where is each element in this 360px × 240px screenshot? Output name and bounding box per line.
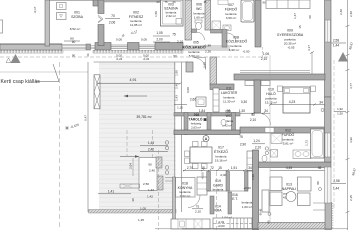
svg-text:1,92: 1,92 xyxy=(337,107,343,111)
svg-text:90: 90 xyxy=(308,15,312,19)
svg-text:-0,05: -0,05 xyxy=(287,46,294,50)
svg-text:1,91: 1,91 xyxy=(231,166,237,170)
armchairs xyxy=(298,177,312,191)
door chevron 001 xyxy=(98,15,103,23)
radiator box 2 xyxy=(57,13,67,20)
toilet xyxy=(195,20,202,23)
svg-text:017: 017 xyxy=(218,146,224,150)
svg-text:011: 011 xyxy=(226,87,232,91)
svg-text:009: 009 xyxy=(287,29,293,33)
A marker xyxy=(205,134,207,136)
top dim row xyxy=(157,0,266,5)
svg-text:3,92: 3,92 xyxy=(349,137,353,143)
svg-text:0,30: 0,30 xyxy=(241,100,247,104)
svg-text:2,90: 2,90 xyxy=(240,143,246,147)
kitchen counters xyxy=(171,219,210,229)
svg-text:24: 24 xyxy=(173,0,176,4)
window lines xyxy=(111,45,155,49)
svg-text:0,00: 0,00 xyxy=(116,38,122,42)
door arc 005 xyxy=(194,58,206,70)
svg-text:2,58: 2,58 xyxy=(333,39,339,43)
svg-text:-0,17: -0,17 xyxy=(33,6,37,13)
svg-text:KÖZLEKEDŐ: KÖZLEKEDŐ xyxy=(182,45,205,50)
vertical thin line x=270 xyxy=(269,55,271,222)
corridor window band xyxy=(183,46,230,50)
wall L x=178-188 xyxy=(186,62,193,72)
shower xyxy=(212,21,221,30)
svg-text:36: 36 xyxy=(318,166,322,170)
triangle marker left xyxy=(11,54,21,63)
dashed overhang line xyxy=(0,56,268,58)
svg-text:4,23: 4,23 xyxy=(289,100,296,104)
wardrobe top xyxy=(266,0,310,9)
wc xyxy=(262,155,267,161)
svg-text:FÜRDŐ: FÜRDŐ xyxy=(282,132,295,137)
svg-text:3,77: 3,77 xyxy=(349,83,353,89)
svg-text:002: 002 xyxy=(133,11,139,15)
toilet wc2 xyxy=(221,119,226,125)
bottom dim row xyxy=(187,166,252,170)
svg-text:0,00: 0,00 xyxy=(141,38,147,42)
svg-text:1,60 m²: 1,60 m² xyxy=(242,205,252,209)
svg-text:+0,00: +0,00 xyxy=(200,172,204,180)
svg-text:013: 013 xyxy=(286,183,292,187)
svg-text:2,10: 2,10 xyxy=(261,57,267,61)
pier 1 xyxy=(95,43,111,51)
pier 3 xyxy=(155,43,183,51)
round table xyxy=(286,192,296,202)
wc bottom wall + door xyxy=(192,29,197,33)
svg-text:WC: WC xyxy=(226,114,232,118)
triangle marker right xyxy=(338,52,348,62)
svg-text:70: 70 xyxy=(111,14,115,18)
bottom right L wall xyxy=(258,223,326,230)
svg-text:WC: WC xyxy=(196,7,202,11)
top edge line xyxy=(45,0,104,2)
svg-text:2,58: 2,58 xyxy=(333,179,339,183)
arrow xyxy=(124,95,147,97)
divider wall 001/002 xyxy=(93,0,99,6)
svg-text:2,40: 2,40 xyxy=(148,148,154,152)
vertical dashed lines bottom xyxy=(158,150,160,230)
svg-text:80: 80 xyxy=(316,181,320,185)
svg-text:2,04: 2,04 xyxy=(129,163,133,169)
svg-text:34: 34 xyxy=(319,101,323,105)
shower xyxy=(271,134,282,144)
interior left wall xyxy=(175,62,182,212)
bed xyxy=(283,87,310,113)
column white box xyxy=(139,158,157,191)
dashed property line xyxy=(59,62,61,228)
svg-text:75: 75 xyxy=(239,135,243,139)
svg-text:15: 15 xyxy=(298,25,302,29)
svg-text:1,90: 1,90 xyxy=(175,70,179,76)
furdo bottom wall xyxy=(253,162,331,168)
island outline xyxy=(176,178,196,198)
svg-text:Kerti csap kiállás: Kerti csap kiállás xyxy=(1,79,41,85)
svg-text:3,50 m²: 3,50 m² xyxy=(226,16,237,20)
svg-text:90: 90 xyxy=(148,163,152,167)
svg-text:-0,00: -0,00 xyxy=(242,50,249,54)
svg-text:E.T.: E.T. xyxy=(232,197,238,201)
svg-text:80: 80 xyxy=(70,37,74,41)
svg-text:2,06: 2,06 xyxy=(109,21,116,25)
svg-text:1,60 m²: 1,60 m² xyxy=(194,16,205,20)
svg-text:019: 019 xyxy=(215,179,221,183)
furdo bottom wall xyxy=(211,30,223,34)
circles 05 xyxy=(265,147,268,150)
svg-text:6,47: 6,47 xyxy=(84,115,88,121)
svg-text:+0,00: +0,00 xyxy=(243,186,251,190)
svg-text:11,85 m²: 11,85 m² xyxy=(130,23,142,27)
-0,470 xyxy=(70,123,80,130)
wall segment left solid xyxy=(0,44,62,50)
terrace gray area xyxy=(99,62,176,212)
svg-text:3,17: 3,17 xyxy=(307,45,311,51)
svg-text:15: 15 xyxy=(204,0,207,4)
svg-text:1,41: 1,41 xyxy=(108,190,114,194)
dims middle 1,43/2,40 xyxy=(148,141,154,152)
svg-text:1,73: 1,73 xyxy=(305,140,309,146)
svg-text:1,42: 1,42 xyxy=(147,195,153,199)
svg-text:016: 016 xyxy=(194,113,200,117)
svg-text:NAPPALI: NAPPALI xyxy=(282,187,297,191)
svg-text:1,44: 1,44 xyxy=(333,44,339,48)
terrace bottom hatched edge xyxy=(89,210,177,214)
svg-text:006: 006 xyxy=(196,3,202,7)
svg-text:015: 015 xyxy=(225,110,231,114)
svg-text:001: 001 xyxy=(74,11,80,15)
sink xyxy=(223,25,231,31)
svg-text:1,25: 1,25 xyxy=(138,218,144,222)
svg-text:1,05: 1,05 xyxy=(156,31,162,35)
halo top wall xyxy=(234,74,325,80)
window 001 left xyxy=(62,44,86,50)
svg-text:4,45: 4,45 xyxy=(286,166,292,170)
svg-text:90: 90 xyxy=(263,1,266,5)
svg-text:012: 012 xyxy=(285,129,291,133)
table xyxy=(190,147,212,163)
svg-text:2,63 m²: 2,63 m² xyxy=(191,126,201,130)
svg-text:+0,00: +0,00 xyxy=(217,224,225,228)
svg-text:1,10: 1,10 xyxy=(177,106,183,110)
dims xyxy=(333,179,340,191)
cabinet column xyxy=(197,177,207,195)
svg-text:2,32 m²: 2,32 m² xyxy=(166,14,176,18)
svg-text:FÜRDŐ: FÜRDŐ xyxy=(225,7,238,12)
svg-text:19,16 m²: 19,16 m² xyxy=(215,159,227,163)
washing machine xyxy=(271,150,278,158)
svg-text:2,18: 2,18 xyxy=(203,62,207,68)
svg-text:1,24: 1,24 xyxy=(253,139,259,143)
door arc lakoter->furdo xyxy=(259,113,271,125)
svg-text:HÁLÓ: HÁLÓ xyxy=(266,91,276,96)
left wall xyxy=(45,0,50,46)
svg-text:2,10: 2,10 xyxy=(177,40,183,44)
svg-text:15: 15 xyxy=(201,166,205,170)
pier 2 xyxy=(128,43,140,51)
chairs xyxy=(185,142,208,169)
svg-text:8,52 m²: 8,52 m² xyxy=(70,27,81,31)
svg-text:010: 010 xyxy=(268,88,274,92)
sill hatch band xyxy=(0,50,63,53)
svg-text:0,00: 0,00 xyxy=(186,87,190,93)
svg-text:34: 34 xyxy=(248,166,252,170)
corridor wall vertical xyxy=(210,57,217,85)
bottom dim line xyxy=(155,228,348,230)
svg-text:1,47: 1,47 xyxy=(293,13,297,19)
svg-text:1,43: 1,43 xyxy=(148,141,154,145)
svg-text:1,43: 1,43 xyxy=(175,95,179,101)
lakoter/halo wall xyxy=(254,80,261,113)
beam shape xyxy=(120,184,140,188)
labels 001 xyxy=(70,11,84,41)
svg-text:-0,24: -0,24 xyxy=(116,57,123,61)
svg-text:2,35: 2,35 xyxy=(349,195,353,201)
svg-text:2,66: 2,66 xyxy=(190,98,196,102)
svg-text:kerámia: kerámia xyxy=(242,201,253,205)
svg-text:2,50: 2,50 xyxy=(143,182,149,186)
svg-text:75: 75 xyxy=(196,205,200,209)
halo bottom wall xyxy=(240,127,330,133)
svg-text:GYEREKSZOBA: GYEREKSZOBA xyxy=(277,33,304,37)
svg-text:ÉTKEZŐ: ÉTKEZŐ xyxy=(214,149,228,154)
svg-text:018: 018 xyxy=(182,182,188,186)
sofa left xyxy=(270,177,282,191)
svg-text:75: 75 xyxy=(165,0,168,4)
svg-text:-0,00: -0,00 xyxy=(220,173,227,177)
window symbol left xyxy=(94,75,100,109)
bathtub xyxy=(311,129,325,158)
radiators under halo wall xyxy=(245,81,254,86)
svg-text:30: 30 xyxy=(131,198,135,202)
svg-text:90: 90 xyxy=(251,113,255,117)
svg-text:005: 005 xyxy=(193,41,199,45)
sinks counter xyxy=(293,150,311,159)
svg-text:75: 75 xyxy=(172,33,176,37)
left edge box xyxy=(0,20,3,33)
bathtub xyxy=(241,0,254,22)
svg-text:24: 24 xyxy=(157,0,160,4)
svg-text:2,40: 2,40 xyxy=(339,9,343,15)
svg-text:1,06: 1,06 xyxy=(263,52,269,56)
svg-text:2,70: 2,70 xyxy=(187,166,193,170)
svg-text:90: 90 xyxy=(173,55,177,59)
svg-text:KÖZLEKEDŐ: KÖZLEKEDŐ xyxy=(226,39,248,44)
svg-text:2,00: 2,00 xyxy=(156,38,162,42)
radiator box 1 xyxy=(57,3,67,10)
furdo right wall w/ window xyxy=(325,97,332,162)
fitnesz top wall xyxy=(104,0,160,2)
svg-text:-0,24: -0,24 xyxy=(143,57,150,61)
svg-text:2,10: 2,10 xyxy=(255,146,261,150)
svg-text:1,20: 1,20 xyxy=(251,174,255,180)
svg-text:60 40: 60 40 xyxy=(259,208,263,215)
svg-text:SZOBA: SZOBA xyxy=(71,15,84,19)
right wall gyerek xyxy=(325,0,332,97)
svg-text:1,88: 1,88 xyxy=(205,44,211,48)
svg-text:5,81 m²: 5,81 m² xyxy=(283,142,294,146)
svg-text:2,10: 2,10 xyxy=(250,118,256,122)
dims xyxy=(239,135,261,150)
svg-text:1,50: 1,50 xyxy=(337,112,343,116)
svg-text:7,02 m²: 7,02 m² xyxy=(180,194,191,198)
svg-text:KRA: KRA xyxy=(215,209,223,213)
tv bench xyxy=(262,190,269,212)
svg-text:LAKÓTÉR: LAKÓTÉR xyxy=(221,90,238,95)
svg-text:39,781 m²: 39,781 m² xyxy=(136,115,152,119)
svg-text:1,43: 1,43 xyxy=(148,188,154,192)
wardrobe right xyxy=(247,151,253,171)
svg-text:007: 007 xyxy=(228,3,234,7)
svg-text:6,90 m²: 6,90 m² xyxy=(229,48,240,52)
svg-text:11,30 m²: 11,30 m² xyxy=(223,100,235,104)
svg-text:2,10: 2,10 xyxy=(195,210,201,214)
svg-text:2,26: 2,26 xyxy=(205,50,211,54)
svg-text:2,40: 2,40 xyxy=(349,11,353,17)
tarolo bottom wall xyxy=(174,130,240,135)
lakoter furniture xyxy=(196,97,206,107)
svg-text:1,50: 1,50 xyxy=(154,11,158,17)
dim 70/2,06 fitnesz door xyxy=(109,14,116,25)
svg-text:1,05: 1,05 xyxy=(140,207,146,211)
svg-text:4,91: 4,91 xyxy=(130,78,137,82)
dims under szauna xyxy=(156,31,183,44)
svg-text:60: 60 xyxy=(72,40,76,44)
bottom wall under kitchen xyxy=(182,228,258,230)
konyha top wall xyxy=(156,176,163,190)
svg-text:2,40: 2,40 xyxy=(149,169,155,173)
